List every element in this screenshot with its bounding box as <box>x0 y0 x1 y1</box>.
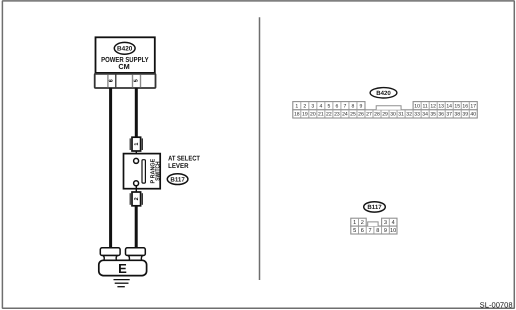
connector label B117 (schematic) <box>167 174 188 185</box>
B420 pin 27 <box>366 112 372 118</box>
svg-text:29: 29 <box>382 112 388 118</box>
connector label B420 (schematic) <box>114 42 135 54</box>
svg-text:10: 10 <box>390 228 396 234</box>
svg-text:40: 40 <box>470 112 476 118</box>
svg-text:31: 31 <box>398 112 404 118</box>
svg-text:B117: B117 <box>170 176 185 183</box>
svg-text:21: 21 <box>318 112 324 118</box>
B420 pin 5 <box>327 104 330 110</box>
B420 pin 12 <box>430 104 436 110</box>
svg-text:36: 36 <box>438 112 444 118</box>
svg-text:12: 12 <box>430 104 436 110</box>
svg-text:1: 1 <box>353 220 356 226</box>
svg-text:39: 39 <box>462 112 468 118</box>
B420 pin 6 <box>335 104 338 110</box>
B420 pin 8 <box>352 104 355 110</box>
svg-text:2: 2 <box>361 220 364 226</box>
connector label B420 (pin view) <box>370 88 397 98</box>
B420 pin 39 <box>462 112 468 118</box>
label AT SELECT LEVER <box>168 155 201 169</box>
B117 pin 3 <box>384 220 387 226</box>
wire pin 5 to switch <box>135 88 138 138</box>
svg-text:LEVER: LEVER <box>168 163 188 170</box>
B420 pin 1 <box>295 104 298 110</box>
B420 connector row under CM box <box>95 74 156 88</box>
svg-text:16: 16 <box>462 104 468 110</box>
svg-text:13: 13 <box>438 104 444 110</box>
connector B420 pin view group pins 1-9 <box>293 102 365 110</box>
switch actuator capsule <box>142 160 145 183</box>
B420 pin 21 <box>318 112 324 118</box>
B420 pin 10 <box>414 104 420 110</box>
svg-text:B420: B420 <box>117 46 133 53</box>
B420 pin 38 <box>454 112 460 118</box>
svg-text:34: 34 <box>422 112 428 118</box>
wire pin 6 to ground <box>109 88 112 249</box>
B420 pin 13 <box>438 104 444 110</box>
svg-text:37: 37 <box>446 112 452 118</box>
svg-text:8: 8 <box>352 104 355 110</box>
B117 pin 2 <box>361 220 364 226</box>
svg-text:14: 14 <box>446 104 452 110</box>
switch bottom connector pin 2 <box>130 192 142 206</box>
svg-text:17: 17 <box>470 104 476 110</box>
B420 pin 35 <box>430 112 436 118</box>
B420 key tab <box>376 106 401 110</box>
B420 pin 11 <box>422 104 427 110</box>
svg-text:6: 6 <box>335 104 338 110</box>
svg-text:7: 7 <box>368 228 371 234</box>
svg-text:SL-00708: SL-00708 <box>480 300 513 309</box>
svg-text:4: 4 <box>392 220 395 226</box>
switch contact top <box>134 158 139 163</box>
svg-text:3: 3 <box>311 104 314 110</box>
B420 pin 36 <box>438 112 444 118</box>
svg-text:3: 3 <box>384 220 387 226</box>
B117 key tab <box>368 222 378 226</box>
switch top connector pin 1 <box>130 137 142 151</box>
svg-text:27: 27 <box>366 112 372 118</box>
B117 pin 10 <box>390 228 396 234</box>
svg-text:25: 25 <box>350 112 356 118</box>
svg-text:6: 6 <box>361 228 364 234</box>
wire contact to connector pin 2 <box>135 186 137 192</box>
B420 pin 19 <box>302 112 308 118</box>
svg-text:2: 2 <box>303 104 306 110</box>
svg-text:4: 4 <box>319 104 322 110</box>
svg-text:5: 5 <box>353 228 356 234</box>
connector B117 pin view group pins 1-2 <box>351 218 366 226</box>
B420 pin 18 <box>294 112 300 118</box>
B420 pin 34 <box>422 112 428 118</box>
svg-text:19: 19 <box>302 112 308 118</box>
svg-text:6: 6 <box>109 79 115 82</box>
label P RANGE SWITCH (rotated) <box>149 159 161 184</box>
B117 pin 7 <box>368 228 371 234</box>
B117 pin 4 <box>392 220 395 226</box>
svg-text:32: 32 <box>406 112 412 118</box>
svg-text:26: 26 <box>358 112 364 118</box>
ground symbol <box>114 280 130 287</box>
connector label B117 (pin view) <box>364 202 386 212</box>
B420 pin 3 <box>311 104 314 110</box>
svg-text:9: 9 <box>384 228 387 234</box>
svg-text:10: 10 <box>414 104 420 110</box>
B420 pin 7 <box>344 104 347 110</box>
B117 pin 8 <box>376 228 379 234</box>
svg-text:18: 18 <box>294 112 300 118</box>
ground block E <box>99 260 147 276</box>
P range switch body <box>124 154 161 189</box>
svg-text:15: 15 <box>454 104 460 110</box>
B420 pin 24 <box>342 112 348 118</box>
B420 pin 23 <box>334 112 340 118</box>
B117 pin 5 <box>353 228 356 234</box>
wire connector pin 2 to ground <box>135 206 138 249</box>
B420 pin 31 <box>398 112 404 118</box>
svg-text:2: 2 <box>134 197 140 200</box>
svg-text:5: 5 <box>133 79 139 82</box>
svg-text:38: 38 <box>454 112 460 118</box>
connector B117 pin view group pins 3-4 <box>382 218 397 226</box>
svg-text:9: 9 <box>360 104 363 110</box>
power supply CM box B420 <box>96 37 155 73</box>
svg-text:5: 5 <box>327 104 330 110</box>
svg-text:B117: B117 <box>367 204 382 211</box>
svg-text:AT SELECT: AT SELECT <box>168 155 201 162</box>
B420 pin 30 <box>390 112 396 118</box>
B117 pin 6 <box>361 228 364 234</box>
svg-text:B420: B420 <box>376 90 391 97</box>
B420 pin 26 <box>358 112 364 118</box>
connector B117 pin view group pins 5-10 <box>351 226 397 234</box>
B117 pin 1 <box>353 220 356 226</box>
svg-text:E: E <box>118 261 127 276</box>
svg-text:8: 8 <box>376 228 379 234</box>
svg-text:SWITCH: SWITCH <box>155 161 162 180</box>
connector B420 pin view group pins 18-40 <box>293 110 477 118</box>
B420 pin 16 <box>462 104 468 110</box>
svg-text:1: 1 <box>134 143 140 146</box>
B420 pin 20 <box>310 112 316 118</box>
svg-text:23: 23 <box>334 112 340 118</box>
B420 pin 17 <box>470 104 476 110</box>
svg-text:30: 30 <box>390 112 396 118</box>
svg-text:11: 11 <box>422 104 427 110</box>
svg-text:7: 7 <box>344 104 347 110</box>
B420 pin 40 <box>470 112 476 118</box>
svg-text:22: 22 <box>326 112 332 118</box>
svg-text:24: 24 <box>342 112 348 118</box>
ground terminal lug left <box>100 248 120 261</box>
label POWER SUPPLY CM <box>101 55 149 71</box>
svg-text:CM: CM <box>118 62 129 71</box>
B420 pin 14 <box>446 104 452 110</box>
B420 pin 4 <box>319 104 322 110</box>
B420 pin 32 <box>406 112 412 118</box>
svg-text:28: 28 <box>374 112 380 118</box>
svg-text:35: 35 <box>430 112 436 118</box>
B420 pin 2 <box>303 104 306 110</box>
B420 pin 15 <box>454 104 460 110</box>
ground terminal lug right <box>126 248 146 261</box>
B420 pin 25 <box>350 112 356 118</box>
wire connector pin 1 to contact <box>135 151 137 158</box>
B420 pin 28 <box>374 112 380 118</box>
svg-text:33: 33 <box>414 112 420 118</box>
B420 pin 29 <box>382 112 388 118</box>
B420 pin 9 <box>360 104 363 110</box>
B117 pin 9 <box>384 228 387 234</box>
svg-text:1: 1 <box>295 104 298 110</box>
B420 pin 22 <box>326 112 332 118</box>
B420 pin 33 <box>414 112 420 118</box>
panel divider <box>259 17 261 280</box>
connector B420 pin view group pins 10-17 <box>413 102 477 110</box>
B420 pin 37 <box>446 112 452 118</box>
svg-text:20: 20 <box>310 112 316 118</box>
switch contact bottom <box>134 181 139 186</box>
